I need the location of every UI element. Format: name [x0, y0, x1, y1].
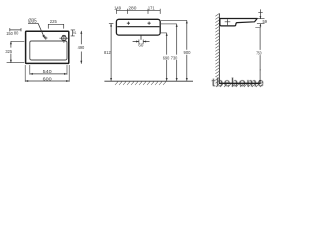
- floor line (middle): [104, 80, 193, 82]
- front view mid line: [117, 26, 159, 28]
- dim 80: [14, 28, 21, 35]
- svg-text:600: 600: [43, 76, 53, 81]
- svg-text:812: 812: [104, 50, 111, 55]
- dim 812: [104, 24, 113, 81]
- top dim line: [116, 9, 160, 14]
- floor hatch (middle): [115, 82, 166, 85]
- svg-text:80: 80: [14, 31, 19, 36]
- outer basin rect (top view): [26, 31, 69, 63]
- dim 690: [163, 33, 170, 81]
- ext line inner top (left): [11, 40, 24, 42]
- watermark: [212, 75, 265, 89]
- dim 91: [71, 30, 77, 36]
- svg-text:750: 750: [256, 51, 262, 56]
- svg-text:171: 171: [148, 5, 155, 10]
- tap hole cross: [44, 36, 47, 39]
- drain stem: [140, 35, 142, 39]
- svg-text:60: 60: [138, 42, 144, 47]
- dim 325: [5, 41, 12, 62]
- svg-text:280: 280: [128, 5, 137, 10]
- ext line tap right: [161, 23, 177, 25]
- floor hatch (right): [216, 84, 263, 87]
- svg-text:91: 91: [73, 30, 77, 35]
- ext line bottom right: [161, 32, 167, 34]
- dim 750: [256, 28, 262, 83]
- svg-text:325: 325: [5, 49, 12, 54]
- dim 490: [78, 31, 85, 64]
- overflow icon (top view, right): [59, 35, 68, 43]
- tap hole leader arrow: [38, 23, 45, 39]
- svg-text:730: 730: [171, 55, 178, 60]
- svg-text:59: 59: [263, 19, 268, 24]
- dim 900: [184, 20, 192, 81]
- ext line rim right: [161, 19, 187, 21]
- side drain symbol: [225, 19, 231, 25]
- dim 60 (drain): [133, 40, 150, 48]
- svg-text:540: 540: [43, 69, 53, 74]
- dim 150: [6, 28, 21, 36]
- dim 540: [30, 65, 67, 75]
- dim 730: [171, 24, 178, 81]
- wall line (side view): [218, 13, 220, 83]
- ext line outer bottom (left): [7, 62, 25, 64]
- dim 600 (left): [25, 65, 69, 82]
- svg-text:149: 149: [114, 5, 121, 10]
- dim 225: [48, 19, 63, 28]
- svg-text:900: 900: [184, 50, 192, 55]
- inner bowl rect (top view): [30, 41, 67, 60]
- svg-text:690: 690: [163, 55, 170, 60]
- basin side profile: [220, 19, 257, 26]
- front view body: [116, 19, 160, 35]
- label O35: [28, 18, 38, 24]
- dim 59: [255, 9, 267, 27]
- floor line (right): [219, 82, 261, 84]
- svg-text:490: 490: [78, 45, 85, 50]
- svg-text:225: 225: [50, 19, 57, 24]
- svg-text:150: 150: [6, 31, 13, 36]
- wall hatch (side view): [215, 13, 219, 83]
- front tap cross left: [127, 22, 130, 25]
- front tap cross right: [148, 22, 151, 25]
